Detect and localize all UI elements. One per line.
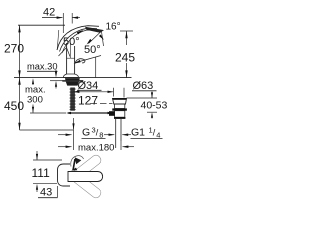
- faucet handle inner curve: [60, 28, 98, 51]
- waste body lower: [115, 111, 125, 118]
- basin top line: [127, 97, 158, 99]
- waste flange: [113, 98, 127, 104]
- svg-text:max.180: max.180: [78, 143, 114, 154]
- svg-text:300: 300: [27, 95, 43, 106]
- plan view: 111 dimension: [33, 159, 62, 161]
- 50° upper angle rays: [59, 48, 67, 57]
- svg-text:40-53: 40-53: [141, 100, 168, 112]
- plan view: spout swivel position up: [72, 153, 103, 180]
- waste tailpipe: [115, 119, 117, 148]
- dimension 245 vertical: [120, 30, 133, 32]
- svg-text:450: 450: [4, 99, 24, 113]
- max.300 hose length dimension: [32, 78, 34, 84]
- dimension 270/450 vertical line: [19, 25, 21, 130]
- svg-text:42: 42: [43, 7, 55, 19]
- waste nut band: [112, 108, 127, 110]
- pop-up actuator rod: [68, 112, 110, 114]
- mounting washer and nut below deck: [62, 80, 83, 81]
- svg-text:270: 270: [4, 42, 24, 56]
- svg-text:245: 245: [115, 51, 135, 65]
- rod ball joint on waste: [109, 111, 115, 116]
- svg-text:127: 127: [78, 94, 98, 108]
- max.180 dimension arrows: [58, 146, 72, 148]
- dimension 127 line: [74, 91, 114, 93]
- G3/8 pointer arrow: [58, 134, 72, 136]
- svg-text:max.30: max.30: [27, 62, 58, 72]
- 43 extension tick: [57, 186, 59, 198]
- faucet base flange: [63, 74, 78, 77]
- svg-text:G: G: [82, 127, 90, 139]
- deck / countertop line: [14, 77, 132, 79]
- 40-53 dimension: [151, 92, 153, 99]
- faucet axis extension tick: [73, 130, 75, 150]
- threaded stud: [70, 88, 75, 111]
- faucet axis arrow to 450 line: [73, 118, 75, 130]
- svg-text:16°: 16°: [106, 22, 121, 33]
- 450 bottom reference line: [20, 129, 74, 131]
- faucet body column: [66, 43, 68, 75]
- G 1 1/4 dimension arrows: [104, 134, 114, 136]
- plan view: handle knob from above: [73, 159, 75, 170]
- handle swing arc with arrowhead: [77, 30, 84, 35]
- hose end reference line: [30, 112, 66, 114]
- 50° lower annotation: hook arc, diagonal ray and vertical ray: [75, 59, 85, 64]
- waste bottom band: [114, 117, 125, 119]
- deck underside short line: [50, 80, 63, 82]
- top reference line (max handle height): [18, 24, 65, 26]
- faucet handle outer curve: [57, 26, 99, 50]
- svg-text:G1: G1: [131, 127, 145, 139]
- faucet handle third curve: [62, 30, 94, 53]
- svg-text:50°: 50°: [84, 44, 101, 56]
- plan view: spout (center position): [68, 172, 103, 182]
- svg-text:Ø63: Ø63: [133, 80, 154, 92]
- spout wedge: [85, 27, 104, 33]
- 16° angle rays: [89, 32, 102, 44]
- plan view: faucet body outline: [58, 164, 71, 186]
- svg-text:43: 43: [40, 187, 52, 199]
- hidden basin dashes: [90, 103, 97, 105]
- svg-text:111: 111: [32, 166, 51, 180]
- tailpipe right extension tick: [120, 141, 122, 150]
- plan view: spout swivel position down: [72, 173, 103, 200]
- waste body upper: [115, 104, 125, 109]
